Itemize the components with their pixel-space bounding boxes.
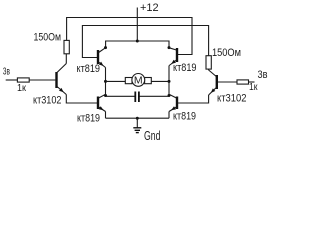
wire bottom-left emitter to ground rail [105,112,107,119]
wire 3v left input lead [6,79,18,81]
transistor Q4 KT819 bottom-left [77,94,106,124]
svg-text:3в: 3в [258,69,268,81]
svg-text:кт3102: кт3102 [217,93,247,105]
svg-text:1к: 1к [249,82,258,93]
transistor Q2 KT819 top-left [77,48,106,75]
resistor 1k left [17,78,29,94]
wire left bus (top-left emitter to bottom-left collector) [105,68,107,97]
svg-text:M: M [134,75,143,87]
svg-text:кт819: кт819 [173,111,196,123]
wire right KT3102 base lead [218,81,237,83]
wire collector bracket to top transistors [106,41,169,48]
svg-text:1к: 1к [17,83,27,94]
junction node left bus motor rail [104,80,107,83]
wire bottom-right emitter to ground rail [168,112,170,119]
transistor Q5 KT819 bottom-right [169,94,196,122]
transistor Q3 KT819 top-right [169,48,196,74]
junction node at +12 and bracket [136,40,139,43]
svg-text:150Ом: 150Ом [34,32,62,44]
motor M1 [106,74,170,87]
resistor 1k right [237,80,258,93]
ground symbol [133,118,160,143]
transistor Q6 KT3102 right [209,70,247,105]
junction node bracket right [168,46,171,49]
transistor Q1 KT3102 left [33,64,66,107]
wire top inner line (left KT819 base to right 150 Ohm top) [82,26,208,58]
wire +12 vertical feed [136,8,138,42]
wire ground rail [106,117,170,119]
junction node right bus capacitor rail [168,94,171,97]
wire right KT3102 emitter to bottom-right KT819 base [178,95,209,103]
svg-text:3в: 3в [3,67,10,78]
wire right bus (top-right emitter to bottom-right collector) [168,66,170,97]
wire left KT3102 emitter to bottom-left KT819 base [66,95,97,104]
wire left 150 Ohm bottom to KT3102 collector [65,54,67,64]
junction node ground rail center [136,117,139,120]
svg-text:150Ом: 150Ом [212,47,241,59]
svg-text:Gnd: Gnd [144,129,161,143]
resistor 150 Ohm right [206,47,241,69]
resistor 150 Ohm left [34,32,70,54]
wire top outer line (left 150 Ohm top to right KT819 base) [67,18,192,55]
svg-text:кт819: кт819 [77,63,101,75]
svg-text:кт819: кт819 [173,62,197,74]
svg-text:кт3102: кт3102 [33,94,62,106]
svg-text:+12: +12 [140,2,159,14]
junction node bracket left [104,46,107,49]
junction node right bus motor rail [168,80,171,83]
wire right 150 Ohm bottom to right KT3102 collector [208,69,210,70]
wire 3v right input lead [249,81,255,83]
svg-text:кт819: кт819 [77,113,100,125]
capacitor C1 [106,92,170,103]
junction node left bus capacitor rail [104,94,107,97]
wire left 1k to KT3102 base [29,79,55,81]
